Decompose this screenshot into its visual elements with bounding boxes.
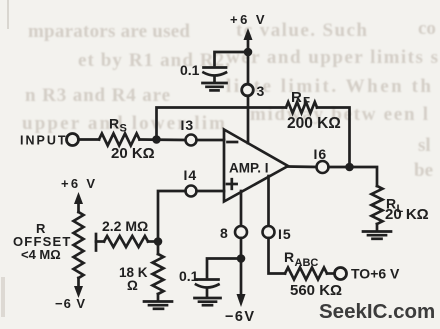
wire: junction to bypass cap C1 <box>215 52 249 65</box>
resistor R2 2.2MΩ <box>104 236 148 247</box>
wire: RABC to terminal <box>327 272 335 275</box>
wire: +6V rail down into op-amp V+ pin <box>247 38 250 143</box>
wire: pin 13 to inverting input <box>197 139 225 142</box>
wire: input terminal to RS <box>79 138 100 141</box>
non-inverting input marker + <box>227 183 237 186</box>
svg-text:20 KΩ: 20 KΩ <box>111 145 155 162</box>
pin 13 <box>186 135 197 146</box>
wire: feedback run from input node over to output node <box>157 108 287 140</box>
-6V arrow <box>237 294 246 307</box>
svg-text:R: R <box>109 116 119 132</box>
wire: 2.2M to node <box>148 240 158 243</box>
svg-text:co: co <box>418 18 436 39</box>
wire: pin 14 to + input <box>197 190 225 193</box>
svg-text:mparators are used: mparators are used <box>28 21 190 42</box>
svg-text:560 KΩ: 560 KΩ <box>290 282 342 299</box>
wire: node down to 18K <box>157 242 160 255</box>
svg-text:2.2 MΩ: 2.2 MΩ <box>102 218 148 234</box>
node: output/feedback junction <box>345 163 354 172</box>
wire: 18K to ground <box>157 294 160 300</box>
capacitor C2 0.1 <box>196 278 219 281</box>
svg-text:Ω: Ω <box>127 278 138 293</box>
node A: input summing node <box>152 135 161 144</box>
resistor RF <box>286 102 317 113</box>
INPUT terminal <box>67 134 79 146</box>
svg-text:+6 V: +6 V <box>230 12 267 27</box>
svg-text:20 KΩ: 20 KΩ <box>385 206 429 223</box>
potentiometer R OFFSET: top arrow <box>74 192 83 204</box>
wire: pin 14 left and down to offset divider <box>158 191 186 242</box>
svg-text:+6 V: +6 V <box>61 176 97 191</box>
ground (18K) <box>144 300 172 303</box>
ground (C2) <box>195 297 221 300</box>
svg-text:200 KΩ: 200 KΩ <box>287 115 341 132</box>
svg-text:−6 V: −6 V <box>55 296 86 311</box>
wire: pin 16 to RL branch <box>329 167 378 186</box>
svg-text:0.1: 0.1 <box>180 62 200 78</box>
svg-text:R: R <box>284 249 294 265</box>
wire: pin 15 down to RABC <box>269 238 286 274</box>
resistor RS <box>99 134 140 146</box>
svg-text:ABC: ABC <box>295 257 319 269</box>
svg-text:S: S <box>120 123 127 135</box>
node: V- junction <box>237 254 246 263</box>
potentiometer bottom arrow <box>77 278 80 288</box>
svg-text:sl: sl <box>418 135 431 156</box>
svg-text:I5: I5 <box>278 226 292 242</box>
svg-text:−6V: −6V <box>225 309 255 325</box>
wire: op-amp output to pin 16 <box>288 165 317 168</box>
wire: RL to ground <box>376 224 379 230</box>
resistor R3 18K <box>153 254 164 294</box>
inverting input marker - <box>228 141 238 144</box>
svg-text:0.1: 0.1 <box>179 268 199 284</box>
wire: V- node to bypass cap C2 <box>207 259 241 278</box>
wire: RS to pin 13 <box>140 138 186 141</box>
ground (RL) <box>363 230 391 233</box>
pin 15 line from op-amp bottom <box>267 176 270 227</box>
svg-text:3: 3 <box>257 83 265 99</box>
resistor RL <box>372 186 383 224</box>
faded page text (bleed-through paragraphs) <box>22 18 438 181</box>
pin 8 line from op-amp bottom <box>240 191 243 227</box>
pin 8 <box>235 226 247 238</box>
scan edge artifacts <box>7 0 9 29</box>
svg-text:wer and upper limits s: wer and upper limits s <box>226 47 438 68</box>
+6V arrow (top supply) <box>244 28 253 40</box>
svg-text:be: be <box>414 160 433 181</box>
svg-text:I4: I4 <box>184 167 198 183</box>
svg-text:F: F <box>303 97 310 109</box>
terminal TO+6V <box>335 268 347 280</box>
capacitor C1 0.1 <box>204 66 227 69</box>
svg-text:I6: I6 <box>314 146 328 162</box>
svg-text:TO+6 V: TO+6 V <box>351 266 400 282</box>
pin 15 <box>263 226 275 238</box>
wire: pin 8 down to -6V node <box>240 238 243 296</box>
svg-text:SeekIC.com: SeekIC.com <box>319 300 435 323</box>
node: offset divider junction <box>154 237 163 246</box>
pin 16 <box>317 161 329 173</box>
svg-text:8: 8 <box>220 225 228 241</box>
svg-text:I3: I3 <box>181 117 195 133</box>
svg-text:AMP. I: AMP. I <box>229 161 269 176</box>
pin 3 <box>242 84 254 96</box>
svg-text:n R3 and R4 are: n R3 and R4 are <box>25 85 170 106</box>
resistor RABC <box>285 268 327 280</box>
wire: RF to output node <box>317 108 350 168</box>
op-amp U1 AMP. I <box>224 130 288 202</box>
svg-text:<4 MΩ: <4 MΩ <box>21 247 61 262</box>
potentiometer R OFFSET body <box>74 212 84 278</box>
pot wiper contact <box>95 234 98 251</box>
svg-text:R: R <box>291 89 302 106</box>
ground (C1) <box>203 82 227 85</box>
svg-text:INPUT: INPUT <box>20 134 68 148</box>
node: junction on +6V rail <box>244 48 253 57</box>
